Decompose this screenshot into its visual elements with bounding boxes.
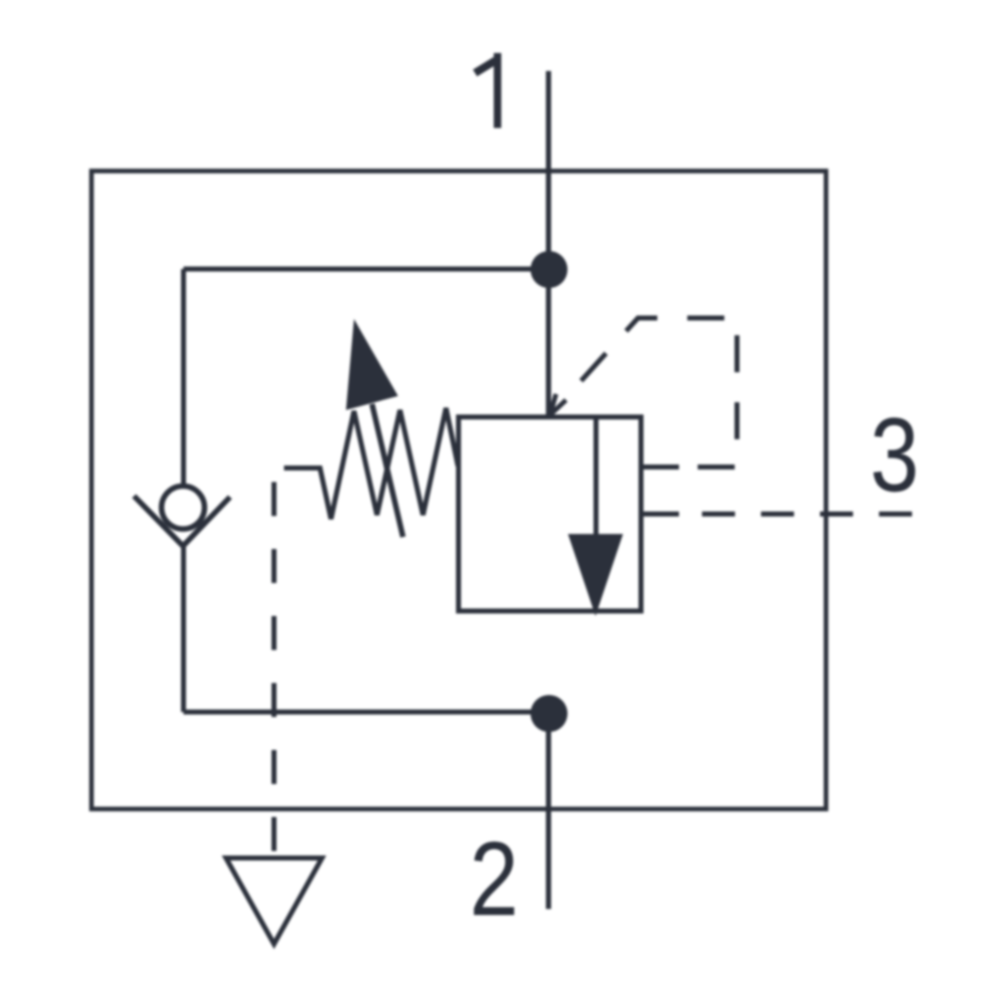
check valve ball <box>162 486 205 529</box>
port 3 dashed line <box>702 512 916 517</box>
check valve seat V <box>134 496 230 546</box>
node junction dot upper <box>531 251 568 288</box>
pilot line arrowhead at valve top <box>550 394 566 415</box>
spring adjustment arrowhead <box>346 319 398 410</box>
port 2 line <box>546 713 551 909</box>
label 1 <box>475 53 498 128</box>
port 1 line <box>546 71 551 417</box>
svg-text:2: 2 <box>469 820 518 938</box>
wire left branch down to check valve <box>181 269 186 486</box>
wire bottom to junction <box>184 710 549 715</box>
pilot solid stub upper <box>641 465 679 470</box>
pilot solid stub lower (port 3) <box>641 512 679 517</box>
node junction dot lower <box>531 695 568 732</box>
drain dashed line <box>272 482 277 857</box>
wire below check valve <box>181 545 186 712</box>
flow path arrowhead <box>568 534 623 616</box>
svg-text:3: 3 <box>870 396 919 514</box>
enclosure boundary (component outline box) <box>92 171 827 809</box>
valve envelope square <box>459 417 642 611</box>
tank symbol triangle <box>226 858 322 944</box>
wire dot to left <box>184 267 549 272</box>
spring <box>284 408 458 519</box>
pilot dashed line loop <box>561 318 737 467</box>
spring adjustment arrow shaft <box>372 404 403 537</box>
flow path line inside valve <box>594 416 599 537</box>
